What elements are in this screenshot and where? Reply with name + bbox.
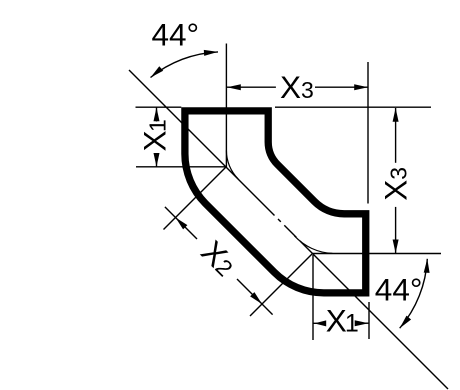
arrowhead at top of arc (points up-right to axis) xyxy=(204,50,218,56)
X1 bottom: left arrowhead xyxy=(314,320,326,326)
X1 bottom: left extension line xyxy=(312,255,314,340)
X1 bottom: right extension line xyxy=(368,302,370,339)
X3 right: down arrowhead xyxy=(393,240,399,254)
X1 bottom: right arrowhead xyxy=(355,320,369,326)
X1 left: top extension line xyxy=(136,106,182,108)
X1 left: bottom extension line xyxy=(136,166,226,168)
44-degree arc bottom-right xyxy=(400,259,428,328)
svg-text:44°: 44° xyxy=(375,271,423,307)
svg-text:44°: 44° xyxy=(152,16,200,52)
X1 left: down arrowhead xyxy=(154,153,160,167)
X1 left: up arrowhead xyxy=(154,107,160,121)
X3 top: right extension line xyxy=(367,62,369,204)
X2: dimension line xyxy=(165,207,197,239)
X1 left: dimension line xyxy=(156,107,158,121)
dash-dot centerline gaps on diagonal between knees xyxy=(275,216,279,220)
arrowhead at top of arc (points up to axis) xyxy=(424,259,430,273)
top face extension line (right) xyxy=(275,106,431,108)
44-degree arc top-left xyxy=(151,52,219,78)
arrowhead at bottom of arc (points down-left to diagonal) xyxy=(400,316,411,329)
X3 top: left arrowhead xyxy=(227,84,241,90)
pipe elbow body outline xyxy=(185,111,366,293)
inlet axis line (vertical) xyxy=(225,44,227,168)
X2: upper arrowhead xyxy=(176,218,188,230)
X3 top: dimension line xyxy=(227,86,276,88)
arrowhead at left of arc (points down-left to diagonal) xyxy=(151,66,164,77)
outlet axis line (horizontal) xyxy=(313,253,442,255)
X3 right: up arrowhead xyxy=(393,108,399,122)
X1 bottom: dimension line xyxy=(314,322,326,324)
X2: extension line from K2 xyxy=(250,254,313,317)
X3 right: dimension line xyxy=(395,108,397,163)
X2: extension line from K1 xyxy=(164,167,227,230)
centerline knee arc at K2 xyxy=(294,236,332,254)
main diagonal construction line xyxy=(129,70,448,389)
centerline knee arc at K1 xyxy=(226,150,238,179)
X2: lower arrowhead xyxy=(250,292,262,304)
X3 top: right arrowhead xyxy=(354,84,368,90)
